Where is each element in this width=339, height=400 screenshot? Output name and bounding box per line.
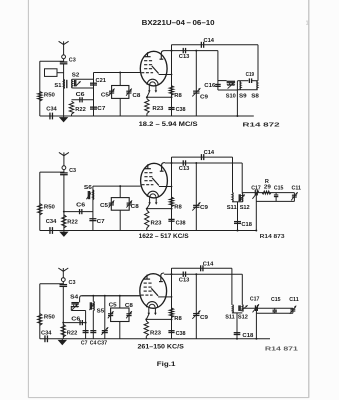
svg-text:R23: R23 — [152, 106, 164, 112]
svg-text:R8: R8 — [174, 204, 182, 210]
tube anode diagonal — [152, 66, 159, 74]
variable capacitor C5 — [109, 90, 114, 92]
wire2 from tube electrode — [164, 273, 242, 275]
grid wire — [93, 185, 141, 187]
wire1 anode top — [172, 267, 232, 269]
coil join wire — [232, 201, 242, 203]
capacitor C3 — [60, 172, 68, 174]
svg-text:S12: S12 — [240, 205, 251, 211]
tube top electrode right (anode exit) — [162, 163, 165, 172]
svg-text:S4: S4 — [70, 295, 79, 301]
svg-text:Fig.1: Fig.1 — [157, 361, 176, 368]
svg-text:C7: C7 — [97, 106, 106, 112]
resistor R8 — [169, 197, 173, 207]
svg-text:C3: C3 — [69, 57, 77, 63]
svg-text:R8: R8 — [174, 93, 182, 99]
cathode to R23 link — [147, 204, 150, 209]
wire2 from tube electrode — [165, 50, 218, 52]
svg-text:C38: C38 — [176, 331, 187, 337]
antenna terminal — [62, 55, 66, 59]
antenna — [62, 268, 64, 278]
tuning gang box C5 C8 — [112, 86, 129, 99]
C18 vertical — [237, 202, 239, 231]
capacitor C21 — [90, 82, 97, 84]
svg-text:S6: S6 — [84, 185, 93, 191]
svg-text:C34: C34 — [46, 107, 57, 113]
wire1 anode top — [172, 156, 233, 158]
resistor R23 — [145, 319, 147, 321]
svg-text:C8: C8 — [125, 303, 134, 309]
ground — [59, 117, 68, 122]
variable capacitor C5 — [109, 202, 114, 204]
coil S8 — [256, 81, 259, 90]
capacitor C16 — [215, 83, 221, 85]
svg-text:R23: R23 — [151, 220, 163, 226]
coil S10 branch top — [218, 80, 227, 82]
wire antenna to C3 — [63, 59, 65, 62]
svg-text:S2: S2 — [72, 73, 80, 79]
svg-text:C16: C16 — [204, 83, 216, 89]
coil S12 — [242, 305, 245, 312]
capacitor C3 — [60, 284, 68, 286]
tube heater legs — [148, 307, 150, 314]
capacitor C19 — [241, 80, 249, 82]
C17 vertical — [255, 308, 257, 339]
tube cathode heater dome — [147, 302, 158, 308]
svg-text:C14: C14 — [204, 150, 215, 156]
wire3 oscillator — [242, 192, 294, 194]
coil S1 — [63, 79, 66, 88]
svg-text:C3: C3 — [69, 168, 77, 174]
wire antenna to C3 — [62, 282, 64, 285]
wire top-left — [40, 60, 64, 62]
svg-text:C38: C38 — [176, 221, 187, 227]
svg-text:C15: C15 — [271, 297, 281, 303]
tube anode diagonal — [151, 288, 158, 296]
svg-text:C19: C19 — [246, 72, 255, 78]
wire1 anode top — [172, 44, 259, 46]
svg-text:261–150 KC/S: 261–150 KC/S — [138, 343, 184, 350]
svg-text:C9: C9 — [200, 95, 209, 101]
capacitor C34 — [44, 335, 46, 342]
right vertical from wire1 — [257, 45, 259, 81]
resistor R50 — [38, 204, 42, 216]
page edge right — [308, 0, 310, 398]
svg-text:C6: C6 — [76, 92, 86, 98]
S11 vertical from wire1 — [231, 268, 233, 305]
anode line to R8 rail — [167, 74, 172, 76]
grid wire upper — [82, 295, 140, 297]
cathode junction wire — [147, 208, 172, 210]
wire1-wire2 link — [171, 157, 173, 163]
svg-text:S5: S5 — [97, 308, 105, 314]
C9 vertical — [195, 274, 197, 339]
svg-text:C14: C14 — [204, 38, 215, 44]
bottom rail — [40, 338, 270, 340]
svg-text:S10: S10 — [226, 94, 237, 100]
variable capacitor C9 — [193, 204, 199, 206]
capacitor C7 — [83, 330, 89, 332]
svg-text:R22: R22 — [67, 331, 78, 337]
svg-text:C17: C17 — [251, 185, 261, 191]
grid rail vertical — [93, 73, 95, 117]
tube top-cap electrode left — [147, 52, 149, 57]
capacitor C14 — [200, 265, 202, 271]
capacitor C15 — [274, 308, 276, 309]
tube grid dashes — [144, 60, 147, 62]
capacitor C13 — [182, 272, 184, 277]
tube cathode heater dome — [147, 79, 158, 85]
wire3 oscillator — [244, 307, 293, 309]
return wire — [256, 200, 294, 202]
variable capacitor C5 — [108, 313, 113, 315]
svg-text:C7: C7 — [81, 341, 88, 347]
svg-text:S11: S11 — [225, 314, 235, 320]
svg-text:C13: C13 — [179, 277, 190, 283]
capacitor C3 — [60, 61, 68, 63]
C7 vertical — [85, 311, 87, 339]
wire top-left — [40, 283, 64, 285]
svg-text:S12: S12 — [238, 314, 249, 320]
tube cathode heater dome — [147, 191, 158, 197]
tube top electrode right (anode exit) — [161, 273, 164, 282]
svg-text:R14 873: R14 873 — [260, 234, 286, 240]
tube grid dashes — [144, 282, 147, 284]
variable capacitor C9 — [193, 90, 199, 92]
R8 C38 vertical — [171, 268, 173, 339]
resistor R22 main — [62, 215, 66, 228]
svg-text:R23: R23 — [150, 330, 162, 336]
tube anode diagonal — [152, 178, 159, 186]
svg-text:1622 – 517 KC/S: 1622 – 517 KC/S — [139, 233, 189, 240]
main vertical — [63, 175, 65, 231]
tube heater legs — [148, 85, 150, 92]
capacitor C38 — [168, 218, 174, 220]
resistor R22 — [69, 101, 73, 114]
antenna — [63, 41, 65, 55]
main vertical — [62, 287, 64, 339]
cathode junction wire — [147, 96, 172, 98]
variable capacitor C8 — [126, 313, 131, 315]
C18 vertical — [236, 313, 238, 339]
S12 vertical from wire2 — [241, 163, 243, 194]
tube top electrode right (anode exit) — [161, 51, 164, 60]
coil S5 — [92, 296, 94, 302]
anode line to R8 rail — [166, 296, 171, 298]
left rail — [39, 172, 41, 230]
cathode to R23 link — [147, 92, 149, 97]
capacitor C18 — [234, 332, 241, 334]
capacitor C15 — [275, 193, 277, 195]
svg-text:C3: C3 — [69, 280, 77, 286]
capacitor C14 — [200, 154, 202, 160]
C16 vertical — [217, 51, 219, 90]
resistor R29 — [262, 191, 271, 194]
resistor R50 — [38, 92, 42, 102]
tube top-cap electrode left — [146, 275, 148, 280]
return wire — [256, 312, 293, 314]
ground — [59, 232, 68, 237]
svg-text:C8: C8 — [132, 93, 141, 99]
ground — [58, 340, 67, 345]
svg-text:R50: R50 — [44, 205, 56, 211]
coil cluster bottom branch — [218, 89, 238, 91]
svg-text:29: 29 — [264, 185, 271, 191]
resistor R50 — [38, 314, 42, 326]
capacitor C14 — [200, 42, 202, 48]
svg-text:R22: R22 — [67, 219, 78, 225]
cathode to R23 link — [146, 314, 149, 319]
svg-text:C34: C34 — [46, 219, 57, 225]
wire2 from tube electrode — [165, 162, 242, 164]
S5 to C4 vertical — [92, 311, 94, 339]
coil join wire — [232, 312, 242, 314]
svg-text:C15: C15 — [274, 185, 284, 191]
svg-text:C11: C11 — [292, 185, 302, 191]
svg-text:C17: C17 — [250, 296, 260, 302]
svg-text:C11: C11 — [289, 297, 299, 303]
C17 vertical — [255, 193, 257, 231]
capacitor C7 — [90, 106, 97, 108]
capacitor C13 — [182, 160, 184, 165]
coil S12 — [241, 194, 244, 202]
wire antenna to C3 — [63, 170, 65, 173]
svg-text:1: 1 — [306, 21, 309, 27]
svg-text:C4: C4 — [90, 341, 97, 347]
coil S9 — [237, 80, 240, 82]
bottom rail — [40, 115, 254, 117]
variable capacitor C17 — [254, 190, 256, 196]
anode line to R8 rail — [167, 186, 172, 188]
main vertical — [63, 64, 65, 116]
capacitor C6 — [63, 322, 85, 324]
cathode junction wire — [146, 318, 171, 320]
vacuum tube envelope — [141, 163, 168, 198]
resistor R23 — [146, 209, 148, 211]
svg-text:C14: C14 — [203, 261, 214, 267]
antenna terminal — [62, 166, 66, 170]
S4 bottom wire — [70, 306, 72, 311]
svg-text:C5: C5 — [101, 92, 110, 98]
svg-text:R14 871: R14 871 — [265, 346, 299, 352]
grid wire — [82, 295, 140, 297]
resistor R8 — [169, 86, 173, 96]
svg-text:R14 872: R14 872 — [242, 122, 280, 128]
tube heater legs — [149, 197, 151, 204]
coil cluster bottom wire — [237, 89, 257, 91]
capacitor C13 — [182, 48, 184, 53]
svg-text:C38: C38 — [176, 107, 187, 113]
S1 antenna coupling box — [45, 69, 58, 77]
vacuum tube envelope — [140, 51, 167, 86]
vacuum tube envelope — [140, 274, 167, 309]
svg-text:C8: C8 — [131, 204, 140, 210]
resistor R22 main — [61, 324, 65, 337]
R8 C38 vertical — [171, 157, 173, 230]
page edge left — [27, 0, 29, 398]
svg-text:C9: C9 — [200, 205, 209, 211]
variable capacitor C9 — [193, 313, 199, 315]
R8 C38 vertical — [171, 45, 173, 116]
tuning gang box C5 C8 — [111, 198, 129, 211]
S12 vertical from wire2 — [241, 274, 243, 305]
resistor R8 — [169, 308, 173, 318]
antenna — [63, 152, 65, 165]
coil S10 — [227, 80, 236, 82]
tube grid dashes — [144, 172, 147, 174]
antenna terminal — [61, 278, 65, 282]
capacitor C7 — [89, 218, 96, 220]
svg-text:C13: C13 — [179, 54, 190, 60]
capacitor C38 — [168, 107, 174, 109]
capacitor C4 — [90, 330, 96, 332]
svg-text:S9: S9 — [239, 94, 247, 100]
page edge bottom — [28, 397, 308, 399]
svg-text:R22: R22 — [75, 107, 86, 113]
capacitor C6 — [72, 99, 94, 101]
svg-text:C9: C9 — [200, 315, 209, 321]
left rail — [39, 61, 41, 116]
svg-text:C6: C6 — [76, 202, 86, 208]
S11 vertical from wire1 — [232, 157, 234, 192]
coil S11 — [231, 192, 234, 202]
svg-text:C6: C6 — [71, 317, 81, 323]
capacitor C34 — [49, 227, 51, 234]
svg-text:C7: C7 — [97, 219, 106, 225]
wire1-wire2 link — [171, 268, 173, 274]
svg-text:C18: C18 — [241, 222, 252, 228]
capacitor C6 — [64, 211, 93, 213]
svg-text:C21: C21 — [96, 78, 107, 84]
resistor R23 — [146, 97, 148, 99]
svg-text:S11: S11 — [227, 205, 238, 211]
variable capacitor C11 — [293, 193, 295, 202]
svg-text:C34: C34 — [41, 330, 52, 336]
svg-text:R50: R50 — [44, 315, 56, 321]
variable capacitor C8 — [126, 90, 131, 92]
svg-text:R50: R50 — [44, 93, 56, 99]
svg-text:S1: S1 — [54, 83, 62, 89]
svg-text:S8: S8 — [251, 94, 259, 100]
svg-text:C37: C37 — [97, 341, 108, 347]
variable capacitor C37 — [102, 330, 108, 332]
svg-text:C13: C13 — [179, 166, 190, 172]
coil cluster mid vertical — [236, 81, 238, 116]
capacitor C34 — [49, 113, 51, 120]
tube top-cap electrode left — [147, 164, 149, 169]
C37 vertical — [104, 296, 106, 339]
tuning gang box C5 C8 — [111, 308, 129, 322]
wire top-left — [40, 171, 64, 173]
variable capacitor C11 — [292, 308, 294, 313]
svg-text:18.2 – 5.94 MC/S: 18.2 – 5.94 MC/S — [139, 121, 198, 128]
bottom rail — [40, 230, 257, 232]
capacitor C38 — [168, 330, 174, 332]
svg-text:R8: R8 — [174, 316, 182, 322]
svg-text:C5: C5 — [109, 302, 118, 308]
variable capacitor C8 — [127, 202, 132, 204]
capacitor C18 — [234, 221, 241, 223]
coil S11 — [232, 305, 235, 313]
left rail — [39, 284, 41, 339]
svg-text:C18: C18 — [242, 333, 254, 339]
variable capacitor C17 — [254, 305, 256, 311]
svg-text:BX221U–04 – 06–10: BX221U–04 – 06–10 — [142, 20, 215, 27]
grid wire — [94, 72, 141, 74]
C9 vertical — [195, 51, 197, 116]
C9 vertical — [195, 163, 197, 231]
wire1-wire2 link — [171, 45, 173, 51]
svg-text:C5: C5 — [100, 203, 109, 209]
